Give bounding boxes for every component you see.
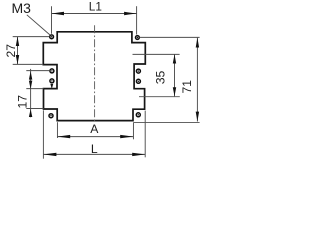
- svg-text:A: A: [90, 122, 99, 136]
- side hole right 1: [136, 69, 140, 73]
- bottom hole right: [136, 113, 140, 117]
- side hole left 2: [50, 79, 54, 83]
- side hole left 1: [50, 69, 54, 73]
- dimension 17: [26, 69, 50, 117]
- vertical centerline: [94, 25, 96, 122]
- svg-text:71: 71: [180, 80, 194, 94]
- dimension A: [57, 122, 133, 139]
- svg-text:27: 27: [4, 44, 18, 58]
- dimension L: [43, 110, 145, 158]
- side hole right 2: [136, 79, 140, 83]
- dimension 27: [13, 37, 50, 65]
- svg-text:L1: L1: [89, 0, 102, 14]
- svg-text:35: 35: [153, 71, 167, 85]
- svg-text:L: L: [91, 142, 98, 156]
- housing body outline: [43, 32, 145, 121]
- screw hole M3 top-right: [136, 36, 140, 40]
- svg-text:17: 17: [15, 95, 29, 109]
- dimension 35: [133, 54, 180, 96]
- bottom hole left: [49, 114, 53, 118]
- svg-text:M3: M3: [12, 0, 32, 16]
- dimension L1: [52, 6, 137, 34]
- dimension 71: [134, 37, 200, 122]
- screw hole M3 top-left: [50, 35, 54, 39]
- small arrow at notch bottom: [50, 84, 53, 89]
